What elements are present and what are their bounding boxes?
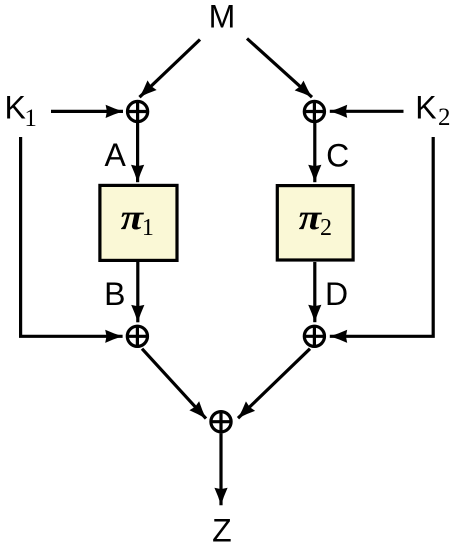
wire C: XOR2 to box pi2 (arrow) [313, 123, 316, 182]
box pi2 (permutation 2) [277, 186, 353, 260]
wire B: box pi1 to XOR3 (arrow) [136, 262, 139, 322]
wire A: XOR1 to box pi1 (arrow) [136, 123, 139, 182]
svg-text:1: 1 [24, 105, 37, 132]
label pi2 [299, 197, 332, 241]
svg-text:Z: Z [212, 513, 232, 549]
wire X5 to Z (arrow) [219, 433, 222, 505]
svg-text:1: 1 [142, 215, 154, 241]
svg-text:C: C [326, 137, 349, 173]
svg-text:M: M [209, 0, 236, 35]
wire X3 to X5 diagonal (arrow) [142, 349, 206, 419]
xor gate X2 (top right) [303, 100, 326, 123]
svg-text:D: D [325, 276, 348, 312]
wire K2 elbow to XOR4 (arrow) [330, 137, 433, 336]
xor gate X5 (bottom center) [210, 410, 233, 433]
svg-text:K: K [415, 90, 436, 126]
wire K2 to XOR2 (arrow) [330, 110, 404, 113]
xor gate X3 (lower left) [126, 325, 149, 348]
svg-text:2: 2 [438, 104, 451, 131]
wire M to XOR1 (arrow) [140, 40, 201, 98]
wire K1 to XOR1 (arrow) [51, 110, 123, 113]
node K1 (key 1 label) [5, 90, 37, 132]
xor gate X1 (top left) [126, 100, 149, 123]
svg-text:K: K [5, 90, 26, 126]
box pi1 (permutation 1) [100, 185, 177, 260]
xor gate X4 (lower right) [303, 325, 326, 348]
svg-text:A: A [105, 137, 127, 173]
label pi1 [121, 197, 154, 241]
wire D: box pi2 to XOR4 (arrow) [313, 262, 316, 322]
svg-text:B: B [104, 276, 125, 312]
wire M to XOR2 (arrow) [247, 39, 312, 98]
node K2 (key 2 label) [415, 90, 450, 132]
svg-text:2: 2 [320, 215, 332, 241]
wire K1 elbow to XOR3 (arrow) [21, 137, 123, 336]
wire X4 to X5 diagonal (arrow) [238, 349, 310, 419]
